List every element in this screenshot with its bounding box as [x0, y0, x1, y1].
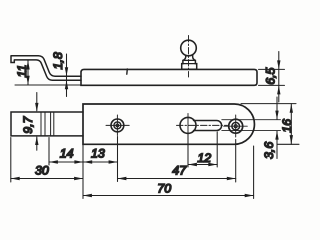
dim 13 right arrow: [109, 160, 118, 163]
svg-text:12: 12: [197, 151, 211, 165]
dim 3,6 extension lines: [222, 120, 281, 131]
dim 70 right arrow: [245, 194, 254, 197]
dim 1,8 arrow down: [65, 67, 68, 76]
dim 6,5 dimension line: [278, 52, 280, 103]
dim 11 arrow up: [26, 60, 29, 69]
dim 16 dimension line: [290, 104, 292, 145]
dim 16 arrow up: [290, 104, 293, 113]
bar (plan view): [11, 112, 83, 136]
dim 30 right arrow: [74, 177, 83, 180]
dim 14 13 dimension line: [49, 161, 118, 163]
plate (plan view): [83, 104, 254, 144]
dim 9,7 upper arrow line: [36, 93, 38, 111]
ext line hole1: [117, 137, 119, 182]
dim 9,7 lower arrow line: [36, 137, 38, 150]
hole2 outer circle: [229, 119, 243, 133]
svg-text:16: 16: [280, 119, 294, 133]
hole1 middle circle: [114, 122, 121, 129]
dim 9,7 upper arrow: [35, 103, 38, 112]
ext line plate right end: [253, 146, 255, 199]
ext line bend: [48, 138, 50, 166]
keyhole vertical centerline: [187, 114, 189, 138]
dim 16 arrow down: [290, 135, 293, 144]
svg-text:14: 14: [60, 147, 74, 161]
dim 3,6 dimension line: [276, 97, 278, 159]
dim 47 dimension line: [118, 178, 236, 180]
svg-text:13: 13: [91, 147, 105, 161]
knob ball: [181, 40, 197, 56]
ext line slot cap: [216, 132, 218, 167]
dim 6,5 arrow up: [277, 86, 280, 95]
dim 3,6 arrow down: [275, 111, 278, 120]
svg-text:1,8: 1,8: [51, 52, 65, 69]
dim 6,5 extension lines: [259, 69, 285, 85]
ext line slot circle: [187, 135, 189, 168]
dim 30 dimension line: [11, 178, 83, 180]
dim 6,5 arrow down: [277, 60, 280, 69]
dim 70 left arrow: [83, 194, 92, 197]
svg-text:47: 47: [172, 164, 187, 178]
dim 12 dimension line: [188, 164, 217, 166]
dim 16 extension lines: [241, 104, 299, 145]
dim 11 arrow down: [26, 76, 29, 85]
dim 30 left arrow: [11, 177, 20, 180]
dim 12 left arrow: [188, 163, 197, 166]
dim 3,6 arrow up: [275, 131, 278, 140]
Z-bar (side view): [11, 56, 81, 80]
svg-text:70: 70: [157, 181, 171, 195]
dim 14 left arrow: [49, 160, 58, 163]
ext line bar left end: [10, 138, 12, 183]
hole1 crosshair: [106, 115, 129, 136]
keyhole slot: [194, 121, 222, 131]
dim 11 extension line: [15, 84, 81, 86]
dim 47 left arrow: [118, 177, 127, 180]
hole2 crosshair: [224, 115, 248, 137]
svg-text:11: 11: [15, 65, 29, 78]
hole1 centerline tick (side view): [126, 69, 129, 74]
knob centerline: [188, 36, 190, 78]
dim 70 dimension line: [83, 195, 254, 197]
svg-text:3,6: 3,6: [262, 142, 276, 159]
dim 1,8 dimension line: [66, 54, 68, 97]
svg-text:6,5: 6,5: [263, 67, 277, 84]
bend lines (plan): [41, 112, 54, 135]
svg-text:30: 30: [35, 164, 49, 178]
dim 14 right arrow: [74, 160, 83, 163]
ext line hole2: [235, 140, 237, 183]
hole1 center ring: [116, 124, 119, 127]
plate (side view): [81, 69, 257, 85]
hole1 outer circle: [111, 119, 124, 132]
svg-text:9,7: 9,7: [21, 115, 35, 133]
hole2 center ring: [234, 125, 237, 128]
dim 47 right arrow: [227, 177, 236, 180]
dim 12 right arrow: [208, 163, 217, 166]
dim 11 dimension line: [27, 61, 29, 85]
slot centerline: [177, 124, 228, 126]
ext line plate left edge: [82, 145, 84, 198]
dim 9,7 lower arrow: [35, 136, 38, 145]
dim 1,8 arrow up: [65, 80, 68, 89]
keyhole circle: [180, 117, 196, 133]
knob neck and base: [182, 55, 197, 69]
knob base disc lines: [182, 60, 197, 63]
hole2 middle circle: [232, 122, 240, 130]
dim 13 left arrow: [83, 160, 92, 163]
